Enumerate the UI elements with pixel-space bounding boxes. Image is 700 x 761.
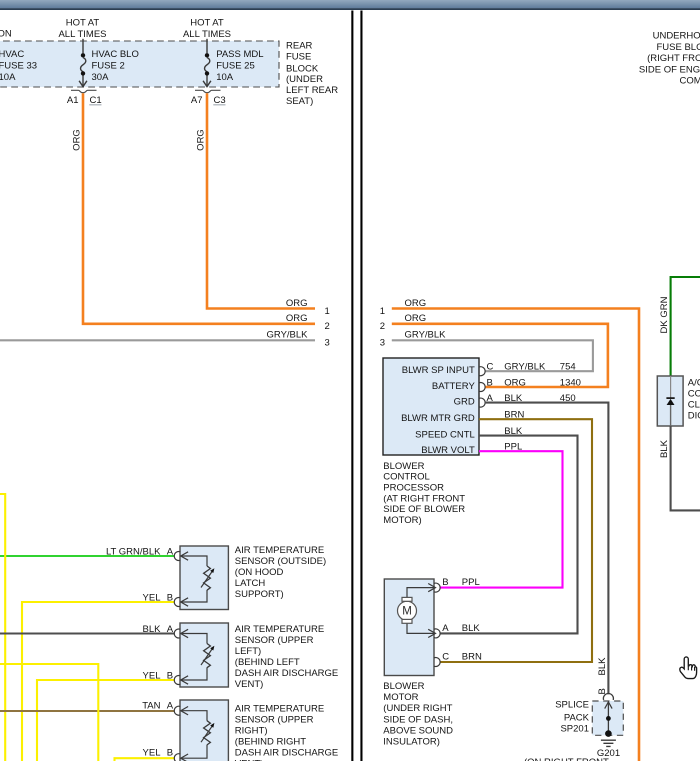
wire label ORG (rotated, fuse F1 drop) xyxy=(72,129,83,151)
svg-text:1: 1 xyxy=(380,306,385,317)
svg-text:AIR TEMPERATURE: AIR TEMPERATURE xyxy=(235,624,324,635)
svg-text:ORG: ORG xyxy=(504,377,526,388)
svg-text:FUSE 33: FUSE 33 xyxy=(0,61,37,72)
page border: right page left edge xyxy=(360,11,362,761)
splice pack pin B (rotated letter) xyxy=(597,688,608,694)
svg-text:GRY/BLK: GRY/BLK xyxy=(504,362,546,373)
pin label YEL B (S3) xyxy=(143,747,174,758)
svg-text:ORG: ORG xyxy=(405,298,427,309)
svg-text:A: A xyxy=(442,623,449,634)
svg-text:10A: 10A xyxy=(0,72,16,83)
svg-text:VENT): VENT) xyxy=(235,679,263,690)
svg-text:ORG: ORG xyxy=(72,129,83,151)
svg-text:1340: 1340 xyxy=(560,377,581,388)
label A/C COMPRESSOR CLUTCH DIODE (cut at right edge) xyxy=(688,377,700,421)
svg-text:PROCESSOR: PROCESSOR xyxy=(383,483,444,494)
svg-text:MOTOR): MOTOR) xyxy=(383,515,421,526)
svg-text:A: A xyxy=(167,701,174,712)
U1 pin A + label BLK 450 xyxy=(479,393,576,407)
wire YEL from left edge going down at x=98 xyxy=(0,664,98,761)
svg-text:SENSOR (OUTSIDE): SENSOR (OUTSIDE) xyxy=(235,556,326,567)
svg-text:10A: 10A xyxy=(216,72,234,83)
svg-text:PASS MDL: PASS MDL xyxy=(216,49,263,60)
label AIR TEMPERATURE SENSOR (OUTSIDE) xyxy=(235,545,326,600)
svg-text:ORG: ORG xyxy=(286,313,308,324)
connector A7 / C3 xyxy=(191,90,226,106)
svg-text:LT GRN/BLK: LT GRN/BLK xyxy=(106,547,161,558)
toolbar strip at window top xyxy=(0,0,700,10)
svg-text:ORG: ORG xyxy=(286,298,308,309)
svg-text:AIR TEMPERATURE: AIR TEMPERATURE xyxy=(235,703,324,714)
svg-text:COMPRESSOR: COMPRESSOR xyxy=(688,388,700,399)
svg-text:B: B xyxy=(167,747,173,758)
label REAR FUSE BLOCK (UNDER LEFT REAR SEAT) xyxy=(286,40,338,107)
U1 pin C + label GRY/BLK 754 xyxy=(479,362,576,376)
svg-text:A/C: A/C xyxy=(688,377,700,388)
svg-text:AIR TEMPERATURE: AIR TEMPERATURE xyxy=(235,545,324,556)
svg-text:BLOCK: BLOCK xyxy=(286,64,319,75)
svg-text:HOT AT: HOT AT xyxy=(66,17,100,28)
terminal 2 + wire ORG (right page) to U1 pin B xyxy=(380,313,608,387)
svg-text:DK GRN: DK GRN xyxy=(659,296,670,333)
svg-text:DIODE: DIODE xyxy=(688,410,700,421)
label HOT AT ALL TIMES (above fuse F2) xyxy=(183,17,231,40)
label HOT AT ALL TIMES (above fuse F1) xyxy=(58,17,106,40)
pin label TAN A (S3) xyxy=(142,701,174,712)
terminal 1 + wire ORG (right page) to lower right xyxy=(380,298,639,761)
svg-text:C: C xyxy=(442,652,449,663)
svg-text:A7: A7 xyxy=(191,95,203,106)
svg-text:LATCH: LATCH xyxy=(235,578,266,589)
svg-text:C: C xyxy=(487,362,494,373)
svg-text:GRD: GRD xyxy=(454,397,475,408)
M1 pin A + label BLK xyxy=(442,623,480,634)
svg-text:A: A xyxy=(167,624,174,635)
svg-text:FUSE 2: FUSE 2 xyxy=(92,61,125,72)
label AIR TEMPERATURE SENSOR (UPPER LEFT) xyxy=(235,624,338,690)
wire YEL from sensor S2 pin B xyxy=(37,680,175,761)
pin label BLK A (S2) xyxy=(143,624,174,635)
svg-text:B: B xyxy=(167,671,173,682)
svg-text:UNDERHOOD: UNDERHOOD xyxy=(653,31,700,42)
wire YEL from sensor S3 pin B xyxy=(115,758,175,761)
svg-text:HVAC BLO: HVAC BLO xyxy=(92,49,139,60)
mouse hand cursor xyxy=(680,657,697,679)
wire label ORG + terminal 2 (left page) xyxy=(286,313,330,332)
wire ORG from fuse F1 (C1) to terminal 2 xyxy=(83,93,315,324)
air temperature sensor S1 (outside) xyxy=(174,546,228,610)
wire label BLK (rotated, below diode) xyxy=(659,439,670,458)
wire YEL vertical at far left xyxy=(0,494,5,761)
wire YEL from sensor S1 pin B xyxy=(22,602,175,761)
svg-text:FUSE 25: FUSE 25 xyxy=(216,61,255,72)
svg-text:FUSE: FUSE xyxy=(286,51,311,62)
pin label YEL B (S1) xyxy=(143,593,174,604)
svg-text:YEL: YEL xyxy=(143,593,161,604)
svg-text:ORG: ORG xyxy=(405,313,427,324)
wire BLK to sensor S2 pin A xyxy=(0,632,175,634)
svg-text:GRY/BLK: GRY/BLK xyxy=(405,329,447,340)
svg-text:HOT AT: HOT AT xyxy=(190,17,224,28)
fuse F2: PASS MDL FUSE 25 10A xyxy=(203,39,263,87)
svg-text:SPEED CNTL: SPEED CNTL xyxy=(415,430,475,441)
svg-text:DASH AIR DISCHARGE: DASH AIR DISCHARGE xyxy=(235,668,338,679)
svg-text:(ON HOOD: (ON HOOD xyxy=(235,567,284,578)
svg-text:LEFT REAR: LEFT REAR xyxy=(286,85,338,96)
air temperature sensor S2 (upper left) xyxy=(174,623,228,687)
svg-text:CONTROL: CONTROL xyxy=(383,472,429,483)
svg-text:SEAT): SEAT) xyxy=(286,96,313,107)
svg-text:BLK: BLK xyxy=(659,439,670,458)
wire BRN from U1 BLWR MTR GRD to motor pin C xyxy=(440,410,593,663)
label SPLICE PACK SP201 xyxy=(555,700,589,735)
svg-text:C3: C3 xyxy=(214,95,226,106)
wire PPL from U1 BLWR VOLT to motor pin B xyxy=(440,442,563,588)
svg-text:BLK: BLK xyxy=(143,624,162,635)
ground G201 xyxy=(597,740,620,759)
svg-text:B: B xyxy=(167,593,173,604)
splice pack SP201 (dashed box) xyxy=(592,701,623,737)
diode D1: A/C compressor clutch diode xyxy=(657,376,683,426)
svg-text:(BEHIND RIGHT: (BEHIND RIGHT xyxy=(235,736,306,747)
wire label DK GRN (rotated) xyxy=(659,296,670,333)
svg-text:HVAC: HVAC xyxy=(0,49,24,60)
pin label YEL B (S2) xyxy=(143,671,174,682)
splice pack SP201 connector cup xyxy=(603,694,613,700)
svg-text:A: A xyxy=(167,547,174,558)
fuse block: REAR FUSE BLOCK (dashed box) xyxy=(0,41,279,87)
wire DK GRN from right edge to diode D1 xyxy=(671,277,700,376)
M1 pin C + label BRN xyxy=(442,652,482,663)
svg-text:SP201: SP201 xyxy=(560,724,589,735)
label AIR TEMPERATURE SENSOR (UPPER RIGHT) xyxy=(235,703,338,761)
svg-text:A1: A1 xyxy=(67,95,79,106)
svg-text:BLWR SP INPUT: BLWR SP INPUT xyxy=(402,365,475,376)
svg-text:CLUTCH: CLUTCH xyxy=(688,399,700,410)
svg-text:ALL TIMES: ALL TIMES xyxy=(183,29,231,40)
wire label ORG (rotated, fuse F2 drop) xyxy=(196,129,207,151)
fuse F1: HVAC BLO FUSE 2 30A xyxy=(79,39,139,87)
svg-text:FUSE BLOCK: FUSE BLOCK xyxy=(657,42,700,53)
wire TAN to sensor S3 pin A xyxy=(0,710,175,712)
M1 pin B + label PPL xyxy=(442,577,479,588)
wire BLK from U1 SPEED CNTL to motor pin A xyxy=(440,426,578,634)
svg-text:YEL: YEL xyxy=(143,747,161,758)
wire LT GRN/BLK to sensor S1 pin A xyxy=(0,555,175,557)
svg-text:B: B xyxy=(487,377,493,388)
svg-text:BLOWER: BLOWER xyxy=(383,461,424,472)
svg-text:C1: C1 xyxy=(90,95,102,106)
wire label ORG + terminal 1 (left page) xyxy=(286,298,330,317)
wire BLK from diode D1 to right edge xyxy=(671,426,700,510)
connector A1 / C1 xyxy=(67,90,102,106)
air temperature sensor S3 (upper right) xyxy=(174,700,228,761)
svg-text:30A: 30A xyxy=(92,72,110,83)
svg-text:PPL: PPL xyxy=(462,577,480,588)
svg-text:MOTOR: MOTOR xyxy=(383,692,418,703)
wire label BLK (rotated, above splice pack) xyxy=(597,657,608,676)
svg-text:(BEHIND LEFT: (BEHIND LEFT xyxy=(235,657,300,668)
svg-text:BLWR VOLT: BLWR VOLT xyxy=(421,445,475,456)
svg-text:COMPARTMENT): COMPARTMENT) xyxy=(680,76,700,87)
svg-text:754: 754 xyxy=(560,362,576,373)
svg-text:GRY/BLK: GRY/BLK xyxy=(266,329,308,340)
svg-text:INSULATOR): INSULATOR) xyxy=(383,737,440,748)
svg-text:(UNDER: (UNDER xyxy=(286,74,323,85)
wire BLK from U1 pin A down to splice pack xyxy=(485,403,609,695)
wire label GRY/BLK + terminal 3 (left page) xyxy=(266,329,329,348)
svg-text:SUPPORT): SUPPORT) xyxy=(235,589,284,600)
svg-text:1: 1 xyxy=(325,306,330,317)
terminal 3 + wire GRY/BLK (right page) to U1 pin C xyxy=(380,329,593,371)
svg-text:BLOWER: BLOWER xyxy=(383,681,424,692)
svg-text:3: 3 xyxy=(325,338,330,349)
svg-text:2: 2 xyxy=(325,321,330,332)
svg-text:(RIGHT FRONT: (RIGHT FRONT xyxy=(647,53,700,64)
svg-text:B: B xyxy=(442,577,448,588)
svg-text:BLK: BLK xyxy=(462,623,481,634)
svg-text:DASH AIR DISCHARGE: DASH AIR DISCHARGE xyxy=(235,747,338,758)
svg-text:LEFT): LEFT) xyxy=(235,646,261,657)
svg-text:ABOVE SOUND: ABOVE SOUND xyxy=(383,725,453,736)
svg-text:REAR: REAR xyxy=(286,40,313,51)
svg-text:SPLICE: SPLICE xyxy=(555,700,589,711)
svg-text:SIDE OF DASH,: SIDE OF DASH, xyxy=(383,714,453,725)
fuse F0 (cut off): HVAC FUSE 33 10A xyxy=(0,49,37,83)
svg-text:M: M xyxy=(402,606,412,618)
svg-text:BRN: BRN xyxy=(462,652,482,663)
svg-text:BATTERY: BATTERY xyxy=(432,381,476,392)
svg-text:SENSOR (UPPER: SENSOR (UPPER xyxy=(235,714,314,725)
svg-text:YEL: YEL xyxy=(143,671,161,682)
wire ORG from fuse F2 (C3) to terminal 1 xyxy=(207,93,315,308)
svg-text:SIDE OF ENGINE: SIDE OF ENGINE xyxy=(639,64,700,75)
svg-text:PACK: PACK xyxy=(564,712,590,723)
blower control processor U1 xyxy=(383,358,479,456)
svg-text:(ON RIGHT FRONT: (ON RIGHT FRONT xyxy=(524,757,609,761)
blower motor M1 xyxy=(384,579,440,676)
svg-text:TAN: TAN xyxy=(142,701,160,712)
svg-text:SIDE OF BLOWER: SIDE OF BLOWER xyxy=(383,504,465,515)
svg-text:ORG: ORG xyxy=(196,129,207,151)
label BLOWER CONTROL PROCESSOR (AT RIGHT FRONT SIDE OF BLOWER MOTOR) xyxy=(383,461,465,526)
svg-text:2: 2 xyxy=(380,321,385,332)
pin label LT GRN/BLK A (S1) xyxy=(106,547,174,558)
svg-text:ON: ON xyxy=(0,28,12,39)
svg-text:(AT RIGHT FRONT: (AT RIGHT FRONT xyxy=(383,493,465,504)
svg-text:RIGHT): RIGHT) xyxy=(235,725,268,736)
svg-text:3: 3 xyxy=(380,338,385,349)
svg-text:BLWR MTR GRD: BLWR MTR GRD xyxy=(401,413,475,424)
label BLOWER MOTOR (UNDER RIGHT SIDE OF DASH, ABOVE SOUND INSULATOR) xyxy=(383,681,453,748)
label UNDERHOOD FUSE BLOCK (RIGHT FRONT SIDE OF ENGINE COMPARTMENT) xyxy=(639,31,700,87)
label (ON RIGHT FRONT (cut at bottom) xyxy=(524,757,609,761)
svg-text:SENSOR (UPPER: SENSOR (UPPER xyxy=(235,635,314,646)
svg-text:(UNDER RIGHT: (UNDER RIGHT xyxy=(383,703,452,714)
page border: left page right edge xyxy=(351,11,353,761)
label ON (cut off at left edge) xyxy=(0,28,12,39)
wire GRY/BLK to terminal 3 xyxy=(0,339,315,341)
U1 pin B + label ORG 1340 xyxy=(479,377,581,391)
svg-text:BLK: BLK xyxy=(597,657,608,676)
svg-text:ALL TIMES: ALL TIMES xyxy=(58,29,106,40)
